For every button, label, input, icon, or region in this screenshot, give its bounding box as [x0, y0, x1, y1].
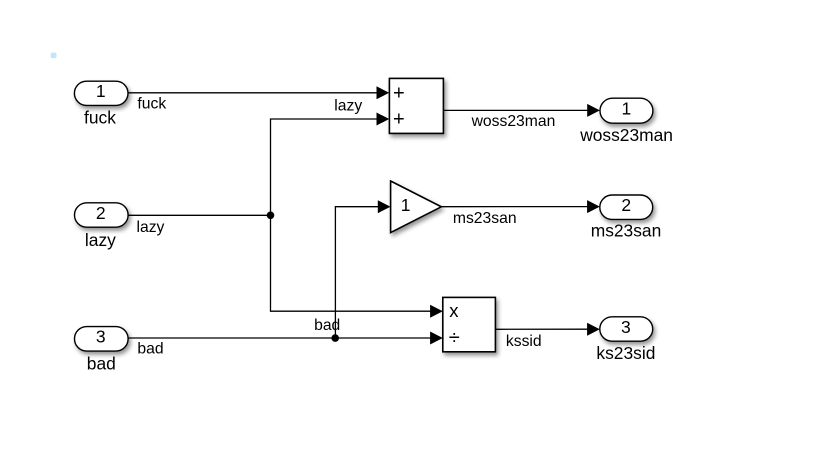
wire: junction A up -> sum in2 — [271, 98, 390, 216]
outport block 2 (ms23san) — [591, 195, 662, 241]
wire: junction B up -> gain in — [314, 200, 390, 338]
svg-text:ms23san: ms23san — [453, 210, 517, 227]
svg-text:1: 1 — [96, 81, 106, 101]
wire: junction A down -> divide in1 — [271, 215, 443, 317]
wire: fuck -> sum in1 — [128, 86, 389, 112]
junction A (lazy branch) — [267, 212, 275, 220]
svg-text:woss23man: woss23man — [471, 113, 556, 130]
sum block U1 — [389, 78, 443, 133]
inport block 2 (lazy) — [75, 203, 129, 250]
svg-text:x: x — [449, 300, 459, 321]
svg-text:bad: bad — [87, 353, 116, 373]
svg-text:2: 2 — [96, 203, 106, 223]
svg-text:2: 2 — [621, 195, 631, 215]
svg-text:+: + — [393, 109, 405, 131]
svg-text:ks23sid: ks23sid — [596, 343, 655, 363]
svg-text:bad: bad — [314, 317, 340, 334]
svg-text:3: 3 — [96, 327, 106, 347]
svg-text:lazy: lazy — [85, 230, 116, 250]
inport block 1 (fuck) — [74, 81, 128, 128]
wire: gain out -> outport 2 — [441, 200, 600, 227]
svg-text:woss23man: woss23man — [579, 125, 673, 145]
svg-text:1: 1 — [401, 195, 411, 215]
wire: bad -> divide in2 — [128, 332, 443, 358]
junction B (bad branch) — [331, 334, 339, 342]
svg-text:bad: bad — [137, 341, 163, 358]
wire: divide out -> outport 3 — [495, 323, 599, 350]
svg-text:fuck: fuck — [137, 95, 166, 112]
outport block 3 (ks23sid) — [596, 317, 655, 363]
outport block 1 (woss23man) — [579, 98, 673, 145]
svg-text:lazy: lazy — [334, 98, 362, 115]
svg-text:+: + — [393, 83, 405, 105]
gain block (triangle, value 1) — [391, 181, 442, 233]
wire: sum out -> outport 1 — [443, 104, 600, 130]
svg-text:1: 1 — [622, 99, 632, 119]
svg-text:÷: ÷ — [449, 327, 460, 349]
svg-text:3: 3 — [621, 317, 631, 337]
svg-text:ms23san: ms23san — [591, 221, 662, 241]
inport block 3 (bad) — [75, 327, 129, 374]
svg-text:lazy: lazy — [137, 219, 165, 236]
wire: lazy -> junction — [128, 215, 271, 236]
svg-text:fuck: fuck — [84, 108, 116, 128]
node marker (stray annotation dot) — [51, 53, 57, 59]
svg-text:kssid: kssid — [506, 333, 542, 350]
divide block U2 — [443, 297, 496, 351]
